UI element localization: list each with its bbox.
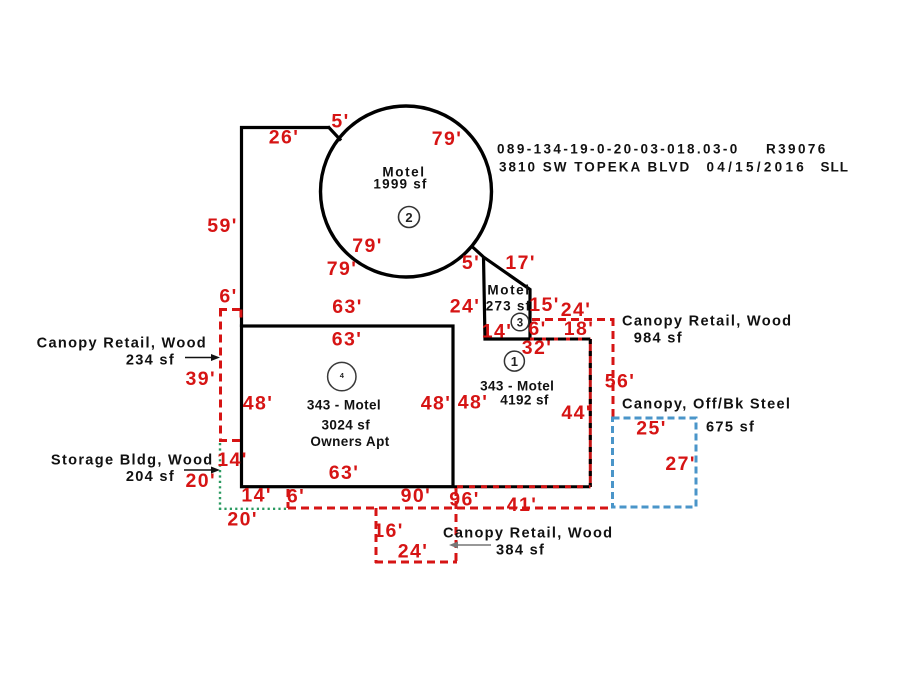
building 1 number symbol circled 1 [504, 351, 524, 371]
building 2 number symbol circled 2 [399, 207, 420, 228]
wire west boundary vertical 59ft [240, 126, 243, 327]
svg-text:63': 63' [332, 329, 363, 351]
canopy 984 red dashed top edge 24ft [532, 318, 614, 321]
svg-text:63': 63' [332, 296, 363, 318]
svg-text:79': 79' [352, 235, 383, 257]
svg-text:5': 5' [462, 252, 480, 274]
svg-text:44': 44' [561, 402, 592, 424]
svg-text:15': 15' [529, 294, 560, 316]
canopy 234 west red dashed vertical 39ft [219, 309, 222, 442]
svg-text:79': 79' [432, 128, 463, 150]
svg-text:984 sf: 984 sf [634, 331, 683, 347]
svg-text:41': 41' [507, 494, 538, 516]
svg-text:79': 79' [327, 258, 358, 280]
building 1 top edge hidden black with red dashes [530, 338, 591, 341]
svg-text:R39076: R39076 [766, 142, 828, 157]
svg-text:Motel: Motel [487, 283, 530, 298]
svg-text:32': 32' [522, 337, 553, 359]
svg-text:3: 3 [517, 318, 523, 330]
svg-text:39': 39' [186, 368, 217, 390]
canopy 984 red dashed east edge 56ft [612, 318, 615, 418]
svg-text:2: 2 [405, 210, 412, 225]
storage building green dotted south edge 20ft [219, 508, 289, 510]
svg-text:273 sf: 273 sf [486, 299, 531, 314]
svg-text:16': 16' [373, 520, 404, 542]
svg-text:18': 18' [564, 318, 595, 340]
building 2 motel circle outline [321, 106, 492, 277]
svg-text:24': 24' [398, 541, 429, 563]
svg-text:1999 sf: 1999 sf [373, 177, 427, 192]
canopy 234 short connector at building corner [240, 310, 243, 322]
svg-text:14': 14' [217, 449, 248, 471]
svg-text:20': 20' [186, 470, 217, 492]
svg-text:4192 sf: 4192 sf [500, 392, 549, 407]
svg-text:Canopy Retail, Wood: Canopy Retail, Wood [37, 336, 207, 352]
svg-text:089-134-19-0-20-03-018.03-0: 089-134-19-0-20-03-018.03-0 [497, 142, 740, 157]
svg-text:Storage Bldg, Wood: Storage Bldg, Wood [51, 453, 214, 469]
svg-text:1: 1 [511, 354, 518, 369]
svg-text:384 sf: 384 sf [496, 543, 545, 559]
svg-text:204 sf: 204 sf [126, 469, 175, 485]
svg-text:6': 6' [287, 486, 305, 508]
building 3 pentagon outline [472, 247, 530, 340]
canopy 384 red dashed west edge 16ft [375, 508, 378, 563]
canopy short red vertical at 6ft [287, 489, 290, 508]
building 4 rectangle outline [242, 326, 454, 487]
svg-text:3810 SW TOPEKA BLVD: 3810 SW TOPEKA BLVD [499, 160, 691, 175]
svg-text:SLL: SLL [821, 160, 850, 175]
wire north boundary horizontal 26ft [240, 126, 329, 129]
svg-text:20': 20' [227, 509, 258, 531]
wire diagonal 5ft to circle [328, 127, 341, 141]
building 4 number symbol circled 4 [328, 362, 356, 390]
canopy 234 bottom jog red dashed [219, 439, 240, 442]
svg-text:Owners Apt: Owners Apt [310, 434, 389, 449]
svg-text:59': 59' [207, 215, 238, 237]
svg-text:48': 48' [458, 392, 489, 414]
svg-text:3024 sf: 3024 sf [322, 418, 371, 433]
svg-text:96': 96' [449, 489, 480, 511]
canopy off/bk steel blue dashed rectangle [613, 418, 697, 507]
svg-text:14': 14' [241, 485, 272, 507]
svg-text:04/15/2016: 04/15/2016 [707, 160, 808, 175]
storage building green dotted west edge 20ft [219, 443, 221, 510]
svg-text:48': 48' [421, 393, 452, 415]
svg-text:26': 26' [269, 127, 300, 149]
building 1 bottom edge black with red dashes [454, 485, 591, 488]
svg-text:675 sf: 675 sf [706, 420, 755, 436]
canopy 234 top jog red dashed [219, 308, 242, 311]
pointer arrow storage bldg [184, 467, 220, 474]
canopy south long red dashed line 41ft [288, 507, 613, 510]
building 1 right edge red with black dashes 44ft [589, 339, 592, 487]
building 3 number symbol circled 3 [511, 313, 529, 331]
svg-text:14': 14' [482, 321, 513, 343]
svg-text:90': 90' [401, 485, 432, 507]
svg-text:234 sf: 234 sf [126, 353, 175, 369]
svg-text:24': 24' [450, 296, 481, 318]
svg-text:27': 27' [665, 453, 696, 475]
svg-text:48': 48' [243, 393, 274, 415]
svg-text:343 - Motel: 343 - Motel [307, 398, 381, 413]
svg-text:6': 6' [219, 286, 237, 308]
svg-text:56': 56' [605, 371, 636, 393]
pointer arrow canopy 234 [185, 354, 220, 361]
svg-text:25': 25' [636, 418, 667, 440]
svg-text:343 - Motel: 343 - Motel [480, 379, 554, 394]
svg-text:63': 63' [329, 462, 360, 484]
canopy 384 red dashed south edge 24ft [375, 561, 457, 564]
svg-text:Canopy Retail, Wood: Canopy Retail, Wood [443, 526, 613, 542]
svg-text:Canopy Retail, Wood: Canopy Retail, Wood [622, 314, 792, 330]
svg-text:5': 5' [331, 111, 349, 133]
canopy 384 red dashed east edge [455, 488, 458, 563]
pointer arrow canopy 384 gray [449, 542, 491, 549]
svg-text:17': 17' [505, 252, 536, 274]
svg-text:Canopy, Off/Bk Steel: Canopy, Off/Bk Steel [622, 397, 791, 413]
